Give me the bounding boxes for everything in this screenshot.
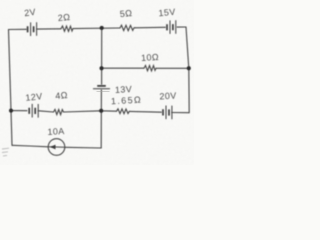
resistor 4ohm xyxy=(54,109,64,114)
resistor 1.65ohm xyxy=(117,109,131,114)
current source 10A xyxy=(48,139,65,156)
wire bottom xyxy=(12,145,101,148)
svg-text:15V: 15V xyxy=(158,7,176,18)
node dot middle wire left xyxy=(100,66,104,70)
battery 13V plates (vertical branch, horizontal plates) xyxy=(93,86,110,89)
wire mid vertical branch xyxy=(100,28,103,148)
svg-text:20V: 20V xyxy=(159,91,177,102)
wire third row: segments with gaps for 12V battery, resistors, 20V battery xyxy=(11,111,189,113)
node dot third wire mid xyxy=(99,109,103,113)
svg-text:10Ω: 10Ω xyxy=(141,52,159,63)
svg-text:2V: 2V xyxy=(24,7,37,18)
wire top: segments with gaps for 2V battery and 15V battery xyxy=(9,27,187,30)
node A dot (top wire) xyxy=(100,26,104,30)
svg-text:1.65Ω: 1.65Ω xyxy=(111,95,143,107)
svg-text:4Ω: 4Ω xyxy=(55,90,69,101)
scan smudge bottom-left xyxy=(2,148,9,156)
junction dots xyxy=(9,26,191,113)
node dot third wire left xyxy=(9,109,13,113)
resistor 2ohm xyxy=(61,26,73,31)
node dot middle wire right xyxy=(187,66,191,70)
battery 15V plates xyxy=(167,20,176,34)
wire left edge xyxy=(9,30,13,146)
svg-text:5Ω: 5Ω xyxy=(119,8,133,19)
battery 20V plates xyxy=(163,106,172,120)
scan ghost under 13V battery plate xyxy=(97,90,110,92)
current source arrowhead xyxy=(50,145,55,150)
svg-text:2Ω: 2Ω xyxy=(57,12,71,23)
wire middle horizontal (node A to right edge) xyxy=(102,67,189,69)
wire right edge xyxy=(186,27,189,113)
svg-text:10A: 10A xyxy=(47,126,65,137)
svg-text:13V: 13V xyxy=(115,84,133,95)
svg-text:12V: 12V xyxy=(25,91,43,103)
battery 2V plates xyxy=(28,22,37,36)
battery 12V plates xyxy=(29,104,38,118)
resistor 10ohm xyxy=(144,65,156,71)
resistor 5ohm xyxy=(120,25,135,31)
